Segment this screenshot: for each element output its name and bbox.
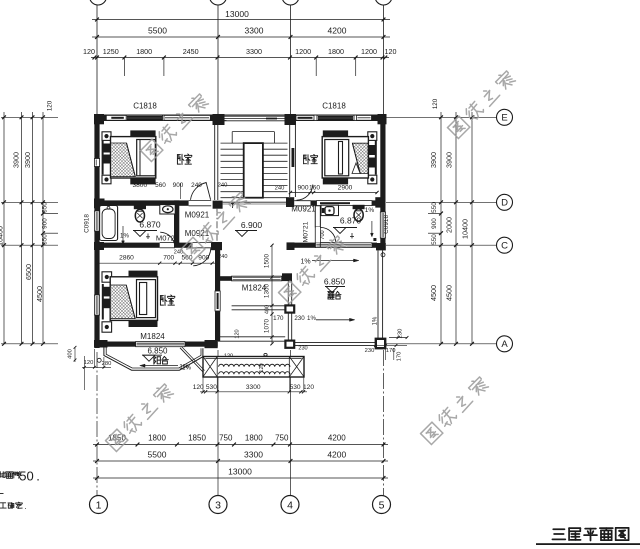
svg-text:240: 240 [218,183,228,189]
left dim row ticks at grid E D C A [1,116,58,118]
svg-text:3300: 3300 [245,26,264,36]
bed3 end bar top [129,271,158,277]
M0921 door opening in D wall (bedroom2) [294,200,310,202]
bed2 pillow 1 [368,145,376,155]
title underline [536,543,640,545]
svg-text:900: 900 [173,182,184,189]
svg-text:3300: 3300 [244,450,263,460]
grid line D horizontal to bubble [386,201,497,203]
bathroom2 floor drain [373,238,376,241]
bed3 frame [110,277,157,321]
svg-text:1%: 1% [373,316,379,325]
bed1 nightstand top [102,132,111,141]
svg-text:2000: 2000 [445,217,454,233]
column at grid 1/E [94,114,104,124]
svg-text:550: 550 [431,234,438,245]
bed1 nightstand bottom [102,175,111,184]
svg-text:120: 120 [84,360,94,366]
stair treads left flight [221,142,244,144]
terrace mid railing grid4 [287,313,289,341]
column at grid 5/D [375,197,385,207]
watermark tuzhizhijia bottom-left [106,382,175,451]
bed1 headboard [102,141,104,175]
grid D wall window segment above bathroom2 [317,201,373,206]
terrace vertical dim chain 1500/1300/400/1070/230 [271,245,273,344]
svg-text:13000: 13000 [225,9,249,19]
stair upper landing outline [232,131,274,133]
svg-text:900: 900 [297,185,308,192]
bed3 foot nested rect [137,280,156,318]
svg-text:3300: 3300 [246,47,262,56]
grid line C horizontal to bubble [386,244,497,246]
left dim column lines [3,112,5,344]
bed2 pillow 2 [368,158,376,168]
svg-text:160: 160 [309,185,320,192]
svg-text:1300: 1300 [264,283,271,298]
svg-text:750: 750 [219,434,233,443]
bed3 pillow 2 [103,299,111,309]
svg-text:1850: 1850 [188,434,206,443]
bottom extension line grid 3 [217,350,219,495]
column at grid 3/A [205,340,218,348]
column grid5/A terrace [376,339,385,348]
svg-text:240: 240 [218,254,227,260]
bed2 foot nested rect [325,140,349,176]
bottom grid bubble 4 [281,496,299,514]
svg-text:1%: 1% [307,315,316,322]
svg-text:120: 120 [83,47,95,56]
terrace east railing [377,250,379,338]
left outer wall grid 1 (E to A) [94,114,99,348]
window C0918 in right wall (bathroom2) [380,212,385,238]
watermark tuzhizhijia middle-left [181,190,252,261]
right dim column lines [440,112,442,344]
column at grid 4/E [285,114,297,125]
svg-text:240: 240 [275,186,285,192]
svg-text:M0921: M0921 [185,211,210,220]
svg-text:C0918: C0918 [383,215,390,234]
door arc M0721 bathroom2 [321,227,336,242]
svg-text:M0721: M0721 [156,234,179,243]
right sub ticks 550/900/550 [428,213,441,215]
svg-text:1%: 1% [120,233,129,240]
watermark tuzhizhijia bottom-right [421,375,490,444]
svg-text:5500: 5500 [148,450,167,460]
bedroom1 label [177,154,184,164]
svg-text:1%: 1% [365,207,375,214]
bed2 nightstand bottom [368,175,377,184]
balcony outline double line [104,347,203,370]
bed3 nightstand bottom [102,322,112,332]
grid bubble 3 top (clipped) [210,0,227,5]
svg-text:5: 5 [379,499,385,511]
svg-text:1: 1 [96,499,102,511]
svg-text:1%: 1% [301,259,311,266]
svg-text:4200: 4200 [327,450,346,460]
note text left cut: gong queding [0,503,6,508]
svg-text:10400: 10400 [461,219,470,239]
terrace south edge wall 4-5 [294,342,375,344]
svg-text:4200: 4200 [328,26,347,36]
bed1 end bar bottom [130,178,155,184]
svg-text:2900: 2900 [338,185,353,192]
hall south wall with M1824 window (between 3 and 4) [218,276,232,281]
svg-text:240: 240 [191,182,202,189]
M0721 door opening in C wall [160,242,175,244]
svg-text:230: 230 [298,346,307,352]
bottom grid bubble 5 [373,496,391,514]
stair treads right flight [263,142,288,144]
svg-text:1200: 1200 [295,47,311,56]
toilet left bathroom [134,205,146,209]
grid line 3 vertical (top) [217,5,219,114]
bed2 headboard [375,141,377,175]
svg-text:700: 700 [320,230,326,239]
svg-text:M0921: M0921 [291,205,316,214]
column at grid 4/D [286,197,294,207]
toilet bathroom2 [353,205,365,209]
grid bubble E [497,109,513,125]
svg-text:530: 530 [206,384,217,391]
svg-text:4500: 4500 [429,285,438,301]
svg-text:4500: 4500 [445,285,454,301]
svg-text:1070: 1070 [264,318,271,333]
svg-text:50: 50 [19,469,33,484]
balcony label yangtai [154,356,161,364]
grid line E horizontal to bubble [386,116,497,118]
column at grid 3/C [211,242,222,250]
grid D wall bedroom2 solid piece [311,200,317,205]
bathroom2 west wall with M0721 door [314,206,316,247]
roof band corner diagonals [203,357,217,377]
right outer wall grid 5 (E to C) [380,114,385,250]
bed1 end bar top [130,130,155,136]
balcony drain circle [97,358,101,362]
bottom extension line grid 1 [96,352,98,495]
grid line 1 vertical (top) [96,5,98,114]
svg-text:1%: 1% [179,363,189,370]
stairwell right wall (grid 4, E-D) [289,125,291,197]
bed2 blanket hatch [352,143,368,173]
svg-text:M1824: M1824 [140,332,165,341]
svg-text:3: 3 [215,499,221,511]
bed1 foot nested rect [137,140,156,176]
svg-text:750: 750 [275,434,289,443]
svg-text:900: 900 [42,218,49,229]
bed3 headboard [102,284,104,320]
svg-text:400: 400 [265,305,271,314]
watermark tuzhizhijia top-left [141,92,210,161]
sink left bathroom [160,205,175,214]
svg-text:550: 550 [42,202,49,213]
bedroom2 label [304,155,310,164]
svg-text:170: 170 [273,315,284,322]
grid bubble A [497,336,513,352]
svg-text:M0721: M0721 [302,221,309,242]
svg-text:120: 120 [193,384,204,391]
svg-text:6.870: 6.870 [139,220,161,230]
small niche in left wall bedroom1 [94,159,99,167]
grid C wall between door openings [175,243,193,248]
window in grid3 wall (bedroom3 east) [215,291,220,311]
door arc M0921 bedroom3 [193,248,211,266]
svg-text:3300: 3300 [246,384,261,391]
window box right of C1818 window (bedroom1) [164,115,210,120]
bed1 pillow 2 [103,155,111,164]
stair void rail rectangle [244,143,263,198]
svg-text:6.870: 6.870 [340,216,362,226]
svg-text:.: . [24,502,26,511]
svg-text:10400: 10400 [0,226,5,246]
svg-text:1500: 1500 [264,253,271,268]
svg-text:1800: 1800 [136,47,152,56]
svg-text:2860: 2860 [119,255,134,262]
svg-text:3900: 3900 [429,152,438,168]
window box left of C1818 window (bedroom1) [106,115,126,120]
bottom extension line grid 5 [383,350,385,495]
watermark tuzhizhijia middle-right [279,234,348,303]
svg-text:D: D [501,198,508,209]
svg-text:.: . [36,469,40,484]
grid bubble 1 top (clipped) [90,0,107,5]
grid bubble 4 top (clipped) [282,0,299,5]
title san ceng ping mian tu [552,529,565,539]
roof hip diagonal from balcony [180,348,203,372]
column grid4 mid terrace [285,305,294,312]
watermark tuzhizhijia top-right [448,69,517,138]
svg-text:700: 700 [163,255,174,262]
svg-text:4500: 4500 [35,286,44,302]
column at grid 4/C [287,242,295,250]
svg-text:E: E [501,113,507,124]
grid bubble 5 top (clipped) [375,0,392,5]
svg-text:3900: 3900 [12,152,21,168]
bed3 pillow 1 [103,287,111,297]
door arc M0921 bedroom2 [297,185,313,201]
svg-text:6.900: 6.900 [241,220,263,230]
column at grid 1/D [94,199,105,209]
bathtub [100,206,118,241]
svg-text:A: A [501,339,508,350]
stair up mark [231,203,234,205]
column at grid 4 / hall-terrace corner [282,273,292,281]
door arc M0721 left bathroom [160,232,175,247]
grid line 5 vertical (top) [383,5,385,114]
svg-text:120: 120 [259,363,265,372]
bed1 frame [111,137,156,178]
svg-text:900: 900 [198,255,209,262]
window C1818 bedroom2 [317,115,354,120]
svg-text:900: 900 [431,218,438,229]
window box right (bedroom2) [357,115,372,120]
extension stubs below top dims [123,58,125,77]
grid bubble D [497,194,513,210]
svg-text:3900: 3900 [445,152,454,168]
grid D wall (left section, bathroom top) [94,200,174,205]
bedroom2 E wall: window box left [94,120,296,122]
sink bathroom2 [321,205,339,215]
svg-text:2450: 2450 [183,47,199,56]
bed3 blanket hatch [110,285,135,319]
note text left cut: dimian zuo 50 [0,472,6,478]
window C1818 bedroom1 [126,115,162,120]
svg-text:C: C [501,241,508,252]
terrace step lines [232,305,286,307]
small circle mark above roof band [264,353,267,356]
bedroom3 south wall (grid A) with M1824 window [94,342,217,347]
bed3 nightstand top [102,272,112,282]
grid line 4 vertical (top) [290,5,292,114]
stair top wall window (E between 3 and 4) [225,115,286,117]
svg-text:120: 120 [385,47,397,56]
column at grid 3/D [213,201,223,209]
grid C wall right section solid piece [295,243,316,248]
column at grid 3/E [213,114,225,125]
svg-text:3800: 3800 [132,182,147,189]
door arc M0921 bedroom1 [191,183,207,200]
svg-text:3900: 3900 [23,152,32,168]
svg-text:530: 530 [290,384,301,391]
svg-text:120: 120 [235,329,241,338]
svg-text:120: 120 [432,98,439,109]
bottom grid bubble 3 [209,496,227,514]
svg-text:550: 550 [42,234,49,245]
svg-text:280: 280 [102,361,112,367]
svg-text:400: 400 [68,349,74,359]
bed2 frame [322,137,368,178]
M0721 door opening bathroom2 [316,227,320,243]
terrace railing grid4 upper segment [287,281,289,305]
bottom extension line grid 4 [290,350,292,495]
outer wall E top: bedroom1 segment [94,114,385,116]
svg-text:170: 170 [397,352,403,362]
tiled roof band below terrace [203,357,304,378]
grid bubble C [497,237,513,253]
window C0918 in left wall (bathroom) [94,211,99,231]
column at grid 1/C [94,242,104,250]
bathroom2 drain arrow [371,221,373,235]
terrace drain circle [381,253,385,257]
bedroom3 label [160,295,167,305]
svg-text:550: 550 [431,202,438,213]
column at grid 5/C [376,243,386,250]
svg-text:6.850: 6.850 [324,277,346,287]
svg-text:1800: 1800 [328,47,344,56]
grid line A horizontal to bubble [386,343,497,345]
svg-text:4200: 4200 [328,434,346,443]
svg-text:120: 120 [47,100,54,111]
bed3 end bar bottom [129,321,158,327]
terrace parapet between 3 and 4 (A row) [218,336,285,338]
bed2 end bar top [323,130,348,136]
svg-text:C0918: C0918 [84,214,91,233]
column at grid 1/A [94,340,108,348]
grid D wall corridor segment with M0921 door opening [174,200,189,205]
grid 3 wall C-A (bedroom3 right wall) [215,248,220,341]
svg-text:1250: 1250 [103,47,119,56]
window in C wall (bathroom2 south) [315,243,372,248]
M0921 door opening in C wall (bedroom3) [193,242,212,244]
stair-hall edge line (D between 3 and 4) [223,201,286,203]
terrace label lutai [328,291,334,299]
grid 3 centerline D-C (dash) [216,209,218,242]
svg-text:1200: 1200 [361,47,377,56]
column at grid 5/E [378,114,387,124]
svg-text:C1818: C1818 [322,102,346,111]
bed1 pillow 1 [103,144,111,153]
svg-text:13000: 13000 [228,467,252,477]
window in left wall (bedroom3) [94,295,99,315]
bathroom-corridor dividing wall [174,200,179,247]
svg-text:1800: 1800 [148,434,166,443]
svg-text:6.850: 6.850 [147,346,168,355]
bed2 nightstand top [368,132,377,141]
bed1 blanket hatch [111,143,136,177]
M0921 door opening in D wall (bedroom1) [189,199,212,201]
bedroom2 left wall window lens [292,148,295,167]
bed2 end bar bottom [323,178,348,184]
svg-text:4: 4 [287,499,293,511]
stairwell left wall (grid 3, E-D) [214,124,216,200]
svg-text:1800: 1800 [245,434,263,443]
column grid4/A terrace [285,341,294,348]
grid C wall left section [94,243,159,248]
svg-text:6500: 6500 [24,264,33,280]
svg-text:230: 230 [365,348,375,354]
svg-text:230: 230 [294,315,305,322]
svg-text:560: 560 [155,182,166,189]
svg-text:120: 120 [303,384,314,391]
bottom grid bubble 1 [90,496,108,514]
left sub ticks 550/900/550 [43,213,58,215]
svg-text:5500: 5500 [148,26,167,36]
balcony slope arrow 1% [142,365,179,367]
svg-text:C1818: C1818 [133,102,157,111]
